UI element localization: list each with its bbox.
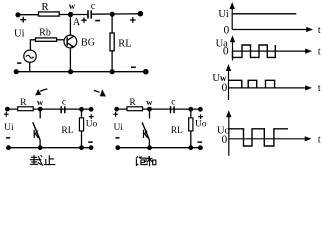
svg-text:Rb: Rb [39,28,51,39]
node RL bottom [79,145,84,150]
node bottom-right terminal [89,145,94,150]
axis Ui horizontal [232,29,307,31]
resistor Rb [36,38,57,41]
axis Uo horizontal [229,138,306,140]
svg-text:c: c [62,97,66,107]
switch k stub [39,109,41,118]
bottom wire [16,71,146,73]
svg-text:0: 0 [223,46,229,58]
svg-text:0: 0 [222,82,228,94]
node bottom-left [14,69,19,74]
node right terminal top [89,107,94,112]
label - (left) [6,137,10,139]
switch k bottom stub [148,140,150,148]
wire Rb to base [57,39,64,41]
wire R to w [59,14,88,16]
label - (left) [115,137,119,139]
axis Uw horizontal [229,87,307,89]
resistor R [18,107,34,111]
node RL bottom junction [110,69,115,74]
svg-text:Ui: Ui [14,29,25,40]
label - (right) [198,141,203,143]
bottom wire [9,147,92,149]
label + (cap left) [81,18,86,23]
axis Uw vertical [228,67,230,100]
node w [147,107,152,112]
svg-text:0: 0 [222,134,228,146]
axis Ui vertical [231,5,233,30]
node switch bottom [38,145,43,150]
svg-text:RL: RL [171,126,183,136]
svg-text:t: t [318,134,321,145]
resistor R [127,107,143,111]
svg-text:R: R [41,1,49,13]
arrow to saturation [94,90,100,92]
label cutoff 载止 (drawn strokes) [30,155,56,166]
switch k blade [33,122,40,139]
label + (Uo) [89,114,94,119]
svg-text:w: w [37,97,44,107]
AC source [24,50,36,62]
transistor BG [64,35,77,48]
top wire [117,108,201,110]
resistor RL [79,118,83,131]
node w [68,12,73,17]
resistor RL [189,118,193,131]
axis Ua vertical [232,38,234,61]
node switch bottom [147,145,152,150]
svg-text:Ui: Ui [218,9,229,20]
node top-left [5,107,10,112]
signal Ui [233,13,296,15]
node cap-RL junction [79,107,84,112]
label + [113,112,118,117]
switch k blade [142,122,149,139]
node bottom-right terminal [143,69,149,75]
wire collector from w [69,15,71,36]
svg-text:c: c [91,1,96,12]
svg-text:A: A [73,17,81,28]
svg-text:t: t [318,25,321,36]
wire emitter to ground [69,48,71,72]
capacitor c [60,106,62,113]
signal Uo square wave [229,129,288,146]
node bottom-left [6,145,11,150]
label - (bottom right) [131,66,136,68]
label saturation 饱和 (drawn strokes) [136,156,156,166]
label - (cap right) [95,20,100,22]
node RL bottom [188,145,193,150]
svg-text:BG: BG [81,38,95,49]
switch k stub [149,109,151,118]
node bottom-right terminal [198,145,203,150]
node w [38,107,43,112]
svg-text:R: R [129,98,136,108]
svg-text:Ui: Ui [113,123,123,133]
label + [4,112,9,117]
axis Ua horizontal [233,50,307,52]
label - (bottom left) [17,62,21,64]
svg-text:c: c [171,97,175,107]
svg-text:Uo: Uo [86,120,98,130]
label - (right) [88,141,93,143]
wire source to Rb [30,40,35,51]
RL branch wire [190,109,192,147]
node right terminal top [138,11,144,17]
node top-left [114,107,119,112]
wire top-left to R [18,14,39,16]
signal Uw pulses [229,80,275,88]
svg-text:w: w [69,1,76,11]
node top-left terminal [15,12,20,17]
label + (right) [130,17,136,23]
svg-text:t: t [318,83,321,94]
arrow to cutoff [40,89,47,91]
node right terminal top [198,107,203,112]
node cap-RL junction [188,107,193,112]
switch k bottom stub [39,140,41,148]
bottom wire [118,147,201,149]
label + (top-left) [20,17,26,23]
svg-text:RL: RL [118,39,131,50]
svg-text:RL: RL [61,126,73,136]
node emitter junction [68,69,73,74]
wire cap to node to right terminal [91,13,140,15]
wire RL branch [111,14,113,71]
resistor RL [110,33,114,51]
label k [34,130,38,138]
top wire [7,108,91,110]
svg-text:Ui: Ui [4,123,14,133]
RL branch wire [81,109,83,147]
svg-text:t: t [318,46,321,57]
svg-text:Uo: Uo [195,120,207,130]
node bottom-left [115,145,120,150]
capacitor c [87,10,89,18]
label k [144,130,148,138]
svg-text:w: w [146,97,153,107]
svg-text:0: 0 [224,25,230,37]
svg-text:R: R [20,98,27,108]
axis Uo vertical [228,113,230,156]
resistor R [39,12,60,16]
signal Ua square wave [233,45,276,57]
wire source to ground [29,62,31,71]
label + (Uo) [198,114,203,119]
capacitor c [170,106,172,113]
node RL top junction [110,12,115,17]
